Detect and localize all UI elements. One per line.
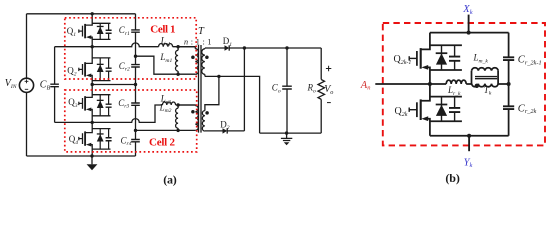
label D2 — [220, 119, 230, 131]
wire An lead to half-bridge midpoint — [375, 83, 430, 85]
wire center tap to secondary2 top — [205, 76, 219, 110]
label D1 — [223, 36, 233, 48]
node D1/D2 cathode junction — [243, 46, 246, 49]
wire Cr column top rail to Cr1 — [135, 14, 137, 30]
wire Cr1 to tank1-return node — [135, 32, 137, 56]
label Cr4 — [121, 135, 132, 147]
capacitor Cr_2k — [503, 106, 514, 109]
wire Cr_2k-1 top lead — [508, 33, 510, 57]
wire transformer block to Cr midpoint — [498, 83, 509, 85]
transistor Q2k-1 — [409, 33, 462, 84]
transformer secondary 2 winding — [202, 111, 205, 131]
wire A2 row from CB to Q column — [55, 121, 93, 123]
resistor Ro — [318, 80, 325, 100]
wire top input rail from Vin+ to Cr branch — [27, 13, 136, 15]
inductor Lr2 — [162, 102, 175, 105]
inductor Lm1 — [176, 47, 179, 74]
transistor Q2k — [409, 84, 462, 136]
label Lr_k — [447, 85, 461, 97]
transformer Tk core — [475, 77, 497, 79]
wire Vin top lead — [26, 14, 28, 78]
wire secondary1 top to D1 — [205, 47, 225, 49]
label Cell 2 — [149, 137, 176, 149]
node Cr2-Cr3 junction on mid rail — [134, 83, 137, 86]
diode D1 — [225, 45, 230, 50]
voltage source VIN circle — [19, 78, 33, 92]
node output bottom at Co — [285, 131, 288, 134]
label Xk — [462, 4, 472, 16]
label Cr_2k-1 — [518, 55, 542, 67]
label Cr1 — [119, 25, 130, 37]
transformer Tk primary winding — [472, 84, 498, 87]
label An — [360, 80, 371, 92]
node tank1 return on Cr column — [134, 55, 137, 58]
label Lr1 — [160, 36, 171, 48]
ground main (arrow) — [87, 156, 98, 170]
label Lm1 — [159, 52, 172, 64]
node tank1 top (Lr1/Lm1/primary1) — [176, 45, 179, 48]
label Lm_k — [473, 53, 489, 65]
inductor Lm2 — [176, 105, 179, 130]
label Vo — [324, 84, 333, 96]
label Vo minus — [327, 102, 331, 104]
node center tap junction — [217, 75, 220, 78]
wire A1 row hop over Cr column and to Lr1 — [92, 43, 158, 47]
inductor Lm_k (top winding) — [472, 68, 499, 84]
wire A2 row hop over Cr column then jog up to Lr2 — [92, 105, 162, 122]
transistor Q3 — [79, 85, 112, 123]
label Cell 1 — [150, 23, 175, 35]
svg-text:Cell 2: Cell 2 — [149, 137, 176, 149]
transistor Q1 — [79, 14, 112, 47]
wire Yk stem — [468, 136, 470, 151]
wire tank1 return (primary1 bottom to Cr midpoint) — [136, 56, 196, 74]
wire Cr3 to tank2-return node — [135, 106, 137, 131]
svg-text:(a): (a) — [163, 172, 177, 186]
node primary1 polarity dot — [191, 56, 195, 60]
ground output — [281, 133, 292, 145]
node tank1 bottom (Lm1 bottom) — [176, 73, 179, 76]
label Q3 — [68, 97, 78, 109]
node secondary2 polarity dot — [205, 111, 209, 115]
VIN plus sign — [25, 79, 29, 83]
wire Vin bottom lead — [26, 92, 28, 156]
wire top bus (Q2k-1 drain to Cr_2k-1) — [430, 32, 509, 34]
wire bottom bus (Q2k source to Cr_2k) — [430, 135, 509, 137]
node secondary1 polarity dot — [205, 56, 209, 60]
label (a) — [163, 172, 177, 186]
node primary2 polarity dot — [191, 110, 195, 114]
label Q2k-1 — [394, 54, 412, 66]
label Cr2 — [119, 61, 130, 73]
capacitor Cr3 — [131, 103, 140, 105]
label Cr_2k — [518, 103, 537, 115]
node mid rail (Q2 source / Q3 drain) — [91, 83, 94, 86]
box Cell 2 (red dotted) — [65, 90, 197, 152]
transformer primary 1 winding — [178, 47, 198, 75]
wire Cr_2k bottom lead — [508, 109, 510, 135]
node Yk junction — [467, 134, 471, 138]
capacitor Cr_2k-1 — [503, 57, 514, 60]
VIN minus sign — [25, 88, 28, 90]
transformer primary 2 winding — [178, 105, 198, 130]
node Cr midpoint junction (b) — [507, 82, 511, 86]
node tank2 bottom (Lm2 bottom) — [176, 129, 179, 132]
wire output bottom rail — [260, 132, 322, 134]
svg-text:(b): (b) — [445, 171, 460, 185]
wire Lr_k to transformer block — [466, 83, 471, 85]
wire Cr2 to mid rail — [135, 67, 137, 84]
box cell k (red dashed) — [383, 23, 545, 145]
label Co — [272, 83, 281, 95]
wire Ro bottom to output bottom — [320, 99, 322, 133]
wire tank2 return (primary2 bottom to Cr midpoint) — [136, 129, 196, 131]
label Q2k — [395, 106, 408, 118]
svg-text:Cell 1: Cell 1 — [150, 23, 175, 35]
label Yk — [464, 157, 473, 169]
node A1 (Q1 source / Q2 drain) — [91, 45, 94, 48]
node tank2 top (Lr2/Lm2/primary2) — [176, 103, 179, 106]
label Vo plus — [326, 66, 331, 71]
node Tk polarity dot — [475, 84, 479, 88]
capacitor Co — [282, 48, 292, 133]
label VIN — [5, 78, 17, 90]
node Q1 drain on top rail — [91, 12, 94, 15]
transistor Q2 — [79, 47, 112, 85]
wire Xk stem — [468, 15, 470, 33]
capacitor CB — [50, 84, 59, 87]
transformer T core — [199, 45, 202, 133]
inductor Lr_k — [446, 80, 466, 84]
wire tank1-return node to Cr2 — [135, 56, 137, 64]
node An midpoint junction — [428, 82, 432, 86]
label Ro — [307, 83, 317, 95]
label Lr2 — [160, 94, 171, 106]
wire output top right corner down to Ro — [320, 48, 322, 80]
diode D2 — [223, 128, 228, 133]
wire Lr1 to tank1 node — [173, 46, 196, 48]
wire D1 cathode to output top — [229, 47, 321, 49]
wire tank2-return node to Cr4 — [135, 130, 137, 139]
wire secondary1 bottom / center tap — [205, 76, 260, 133]
label Cr3 — [118, 98, 129, 110]
label (b) — [445, 171, 460, 185]
wire bottom rail from Vin- to Cr branch — [27, 155, 136, 157]
label T — [198, 26, 205, 37]
transformer secondary 1 winding — [202, 48, 205, 76]
label Q1 — [67, 26, 77, 38]
wire secondary2 bottom to D2 — [205, 130, 223, 132]
wire A1 row from CB to Q column — [55, 46, 93, 48]
capacitor Cr1 — [131, 30, 140, 32]
wire mid rail to Cr3 — [135, 85, 137, 103]
label Tk — [484, 85, 492, 97]
svg-text:n : 1 : 1: n : 1 : 1 — [184, 38, 212, 47]
node output top at Co — [285, 46, 288, 49]
wire Cr_2k top lead — [508, 84, 510, 106]
wire Lr2 to tank2 node — [176, 104, 196, 106]
capacitor Cr4 — [131, 140, 140, 142]
capacitor Cr2 — [131, 65, 140, 67]
node Xk junction — [467, 31, 471, 35]
wire mid rail Q column to Cr column — [92, 84, 135, 86]
node tank2 return on Cr column — [134, 129, 137, 132]
wire midpoint to Lr_k — [430, 83, 446, 85]
node A2 (Q3 source / Q4 drain) — [91, 121, 94, 124]
wire diode cathode bus (vertical) — [243, 48, 245, 131]
label Q2 — [67, 66, 77, 78]
label Lm2 — [159, 102, 172, 114]
wire CB branch bottom (cap to A2) — [54, 87, 56, 123]
wire Cr_2k-1 bottom lead — [508, 60, 510, 84]
wire Cr4 to bottom rail — [135, 142, 137, 156]
box Cell 1 (red dotted) — [65, 18, 196, 79]
inductor Lr1 — [159, 44, 173, 47]
wire CB branch top (A1 to cap) — [54, 47, 56, 84]
label CB — [40, 80, 51, 92]
label n:1:1 ratio — [184, 38, 212, 47]
transistor Q4 — [79, 122, 112, 156]
node ground junction on bottom rail — [90, 154, 93, 157]
label Q4 — [69, 134, 79, 146]
wire D2 cathode up to D1 cathode — [227, 130, 244, 132]
